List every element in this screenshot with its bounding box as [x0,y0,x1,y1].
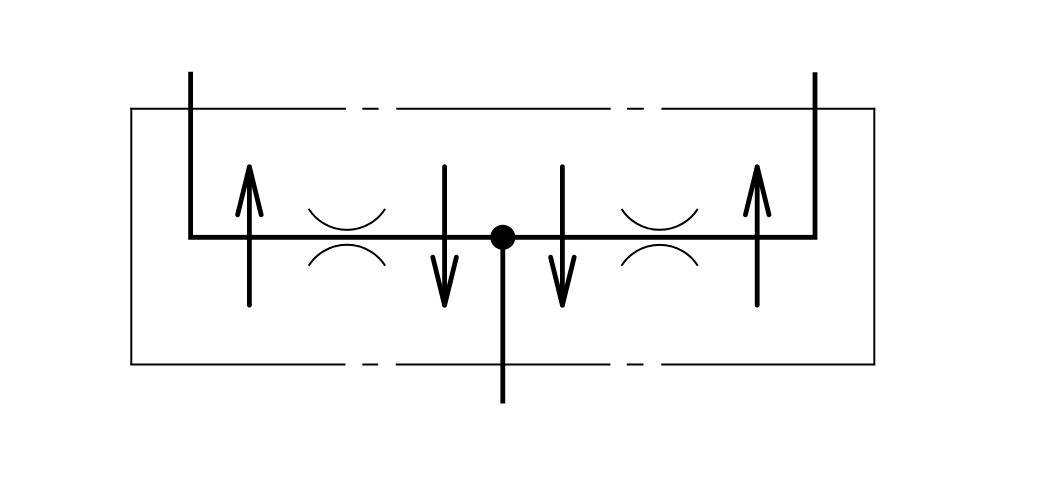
enclosure left border [130,108,132,366]
enclosure bottom border dash 2 [396,364,611,366]
enclosure top border dash 3 [661,108,875,110]
enclosure bottom border dot 1 [362,364,378,366]
wire: left port line, main gallery, right port line (U path) [191,72,815,238]
flow arrow up (right) [745,167,769,305]
node: junction dot [490,225,515,250]
restrictor left (orifice arcs) [309,209,385,266]
enclosure top border dash 2 [396,108,610,110]
enclosure top border dash 1 [130,108,346,110]
enclosure bottom border dash 3 [661,364,875,366]
enclosure right border [873,108,875,366]
enclosure top border dot 1 [362,108,378,110]
flow arrow down (right-center) [551,167,575,305]
flow arrow down (left-center) [433,167,457,305]
enclosure bottom border dash 1 [130,364,345,366]
enclosure bottom border dot 2 [627,364,644,366]
flow arrow up (left) [238,167,262,305]
enclosure top border dot 2 [627,108,644,110]
restrictor right (orifice arcs) [622,209,698,266]
wire: bottom center port line [500,237,505,403]
